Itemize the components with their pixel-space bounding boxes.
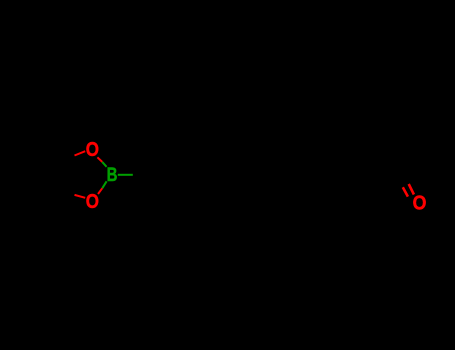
wire: B to ring1 green half	[118, 174, 133, 176]
wire: ring2 inner aromatic line top	[283, 152, 308, 154]
wire: chain CH=CH inner double line	[355, 167, 377, 179]
wire: C=O dark half parallel	[398, 178, 403, 188]
wire: B to ring1 dark half	[133, 174, 150, 176]
wire: bridge CH2 left bond	[212, 160, 239, 175]
wire: B to O-top green half	[102, 162, 106, 167]
wire: O-top to C4 red half	[75, 151, 86, 155]
wire: ring1 inner aromatic line bottom-right	[194, 175, 207, 197]
wire: B to O-bottom green half	[102, 181, 106, 188]
wire: O-bottom to B red half	[98, 188, 102, 194]
wire: O-top to C4 dark half	[64, 156, 75, 160]
wire: ring2 inner aromatic line bottom-left	[271, 175, 284, 197]
wire: O-bottom to C5 red half	[75, 195, 86, 198]
wire: methyl on C4 up-left	[38, 148, 64, 160]
wire: ring1 inner aromatic line bottom-left	[156, 175, 169, 197]
wire: C=O red half parallel	[403, 187, 408, 196]
wire: chain CH to carbonyl C	[380, 174, 404, 176]
wire: ring2 inner aromatic line bottom-right	[309, 175, 322, 197]
wire: O-bottom to C5 dark half	[64, 191, 75, 195]
wire: methyl on C5 down-left	[38, 191, 64, 203]
svg-text:O: O	[413, 193, 427, 215]
svg-text:B: B	[107, 164, 118, 186]
node: benzene ring 1	[150, 148, 212, 202]
wire: C=O dark half main	[404, 174, 409, 185]
wire: chain CH=CH bond	[354, 160, 381, 175]
wire: ring1 inner aromatic line top	[168, 152, 193, 154]
wire: O-top to B red half	[97, 157, 102, 162]
wire: pinacol C4-C5 bond	[63, 160, 65, 191]
svg-text:O: O	[86, 139, 99, 161]
svg-text:O: O	[86, 191, 99, 213]
node: benzene ring 2	[265, 148, 327, 202]
wire: C=O red half main	[409, 184, 414, 195]
wire: chain bond ring2 to CH	[327, 160, 354, 175]
wire: methyl on C4 up	[58, 131, 64, 160]
wire: bridge CH2 right bond	[239, 160, 266, 175]
wire: methyl on C5 down	[58, 191, 64, 220]
